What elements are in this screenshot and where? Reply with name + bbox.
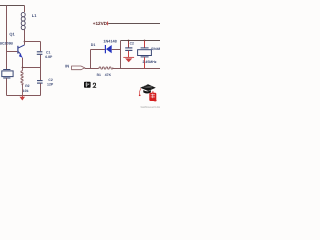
- svg-text:R2: R2: [25, 84, 29, 88]
- transistor Q1: [17, 42, 24, 68]
- wire: bottom signal wire right of R1: [113, 68, 160, 70]
- svg-text:BC209B: BC209B: [0, 42, 13, 46]
- svg-text:1N4148: 1N4148: [103, 40, 116, 44]
- svg-text:5/N48: 5/N48: [151, 47, 160, 51]
- node: emitter junction dot: [22, 67, 24, 69]
- capacitor C1: [37, 42, 43, 68]
- resistor R2: [21, 68, 23, 96]
- crystal XT1 (left): [2, 70, 13, 79]
- caption number 2: [93, 83, 96, 87]
- wire: top feedback wire: [0, 5, 25, 7]
- logo red glyph: [149, 91, 156, 101]
- resistor R1: [99, 67, 114, 69]
- svg-text:6.8P: 6.8P: [45, 55, 53, 59]
- wire: crystal bottom lead: [6, 78, 8, 95]
- power bar +12V: [107, 22, 109, 26]
- svg-text:L1: L1: [32, 13, 37, 18]
- svg-text:C1: C1: [46, 51, 50, 55]
- diode D1: [91, 45, 121, 53]
- svg-text:+12VD: +12VD: [93, 21, 108, 26]
- ground (right, arrow style): [123, 57, 134, 62]
- caption figure 2 glyph block: [84, 82, 91, 88]
- wire: left rail upper (top wire to base junction): [6, 6, 8, 52]
- svg-text:D1: D1: [91, 43, 96, 47]
- wire: upper node wire: [121, 40, 161, 42]
- wire: collector horizontal wire: [25, 41, 41, 43]
- svg-text:2.45MHz: 2.45MHz: [143, 60, 157, 64]
- svg-text:Q1: Q1: [9, 31, 15, 36]
- wire: base lead: [7, 51, 18, 53]
- svg-text:WWW.ELECFANS.COM: WWW.ELECFANS.COM: [141, 106, 161, 109]
- node: collector junction dot: [24, 41, 26, 43]
- svg-text:C2: C2: [130, 41, 134, 45]
- capacitor C2 (left): [37, 68, 43, 96]
- inductor L1: [21, 6, 25, 42]
- ground (left circuit): [20, 96, 26, 101]
- wire: bottom signal wire left of R1: [85, 68, 99, 70]
- wire: crystal top lead (left rail lower): [6, 52, 8, 70]
- crystal Y1 (right): [138, 41, 152, 69]
- svg-text:R1: R1: [97, 73, 101, 77]
- port IN: [72, 66, 85, 70]
- wire: +12V rail: [108, 23, 160, 25]
- wire: emitter horizontal wire: [23, 67, 41, 69]
- node: crystal top junction dot: [144, 40, 146, 42]
- svg-text:47K: 47K: [105, 73, 112, 77]
- svg-text:10k: 10k: [23, 89, 29, 93]
- svg-text:12P: 12P: [47, 82, 54, 86]
- wire: loop right vertical: [120, 41, 122, 69]
- wire: loop left vertical: [90, 50, 92, 69]
- wire: bottom wire: [7, 95, 41, 97]
- capacitor C2 (right): [125, 41, 132, 58]
- node: C2 top junction dot: [128, 40, 130, 42]
- svg-text:IN: IN: [65, 64, 69, 69]
- logo graduation cap: [139, 84, 156, 96]
